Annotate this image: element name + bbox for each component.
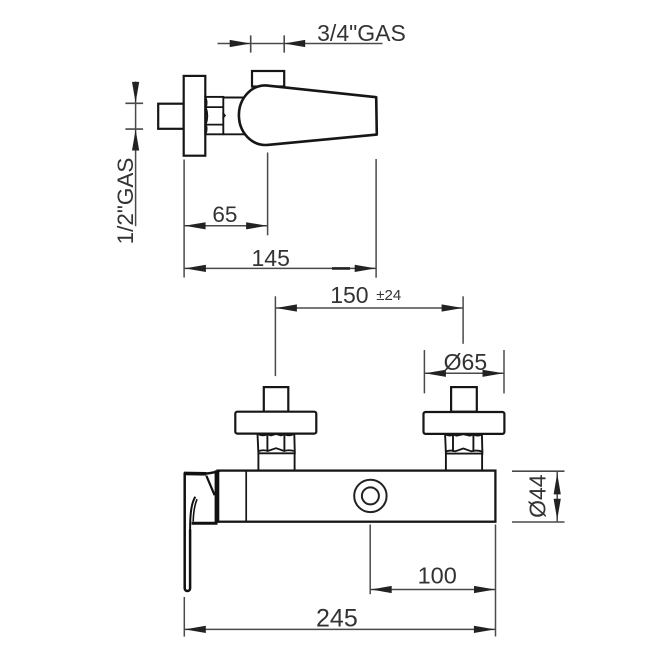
svg-text:100: 100 — [418, 563, 457, 589]
svg-text:65: 65 — [212, 202, 237, 227]
svg-text:145: 145 — [252, 245, 290, 271]
svg-text:3/4"GAS: 3/4"GAS — [317, 20, 406, 46]
svg-text:245: 245 — [316, 605, 358, 633]
svg-text:1/2"GAS: 1/2"GAS — [113, 158, 138, 245]
svg-text:±24: ±24 — [376, 287, 401, 304]
svg-text:150: 150 — [330, 282, 368, 308]
svg-text:Ø44: Ø44 — [524, 474, 550, 518]
svg-text:Ø65: Ø65 — [444, 349, 487, 375]
